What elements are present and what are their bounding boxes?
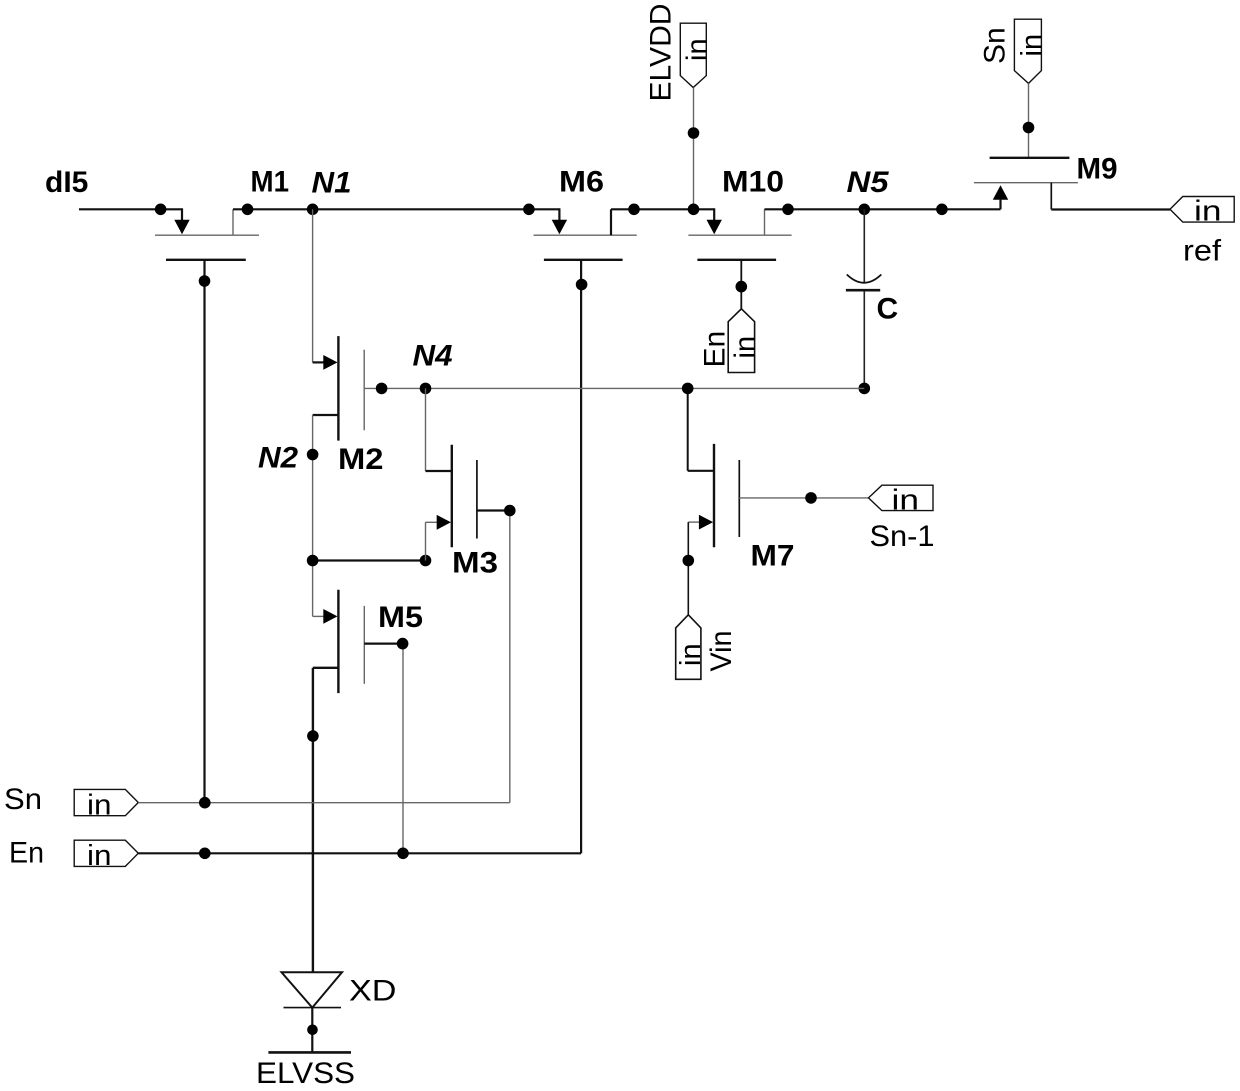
- svg-text:Vin: Vin: [705, 631, 738, 672]
- wire XD cathode to ELVSS: [311, 1008, 313, 1053]
- svg-text:En: En: [9, 837, 44, 870]
- wire dI5 input to M1 source: [79, 208, 182, 221]
- svg-text:M9: M9: [1077, 153, 1118, 186]
- svg-text:M3: M3: [452, 547, 498, 580]
- junction dot En at M5 gate: [397, 848, 409, 860]
- wire M2 drain down through N2: [312, 415, 314, 616]
- junction dot M5 gate lead: [397, 638, 409, 650]
- svg-text:ref: ref: [1183, 235, 1222, 268]
- svg-text:M10: M10: [722, 166, 784, 199]
- node ELVDD rail junction: [688, 204, 700, 216]
- svg-text:in: in: [892, 484, 920, 516]
- diode XD: [282, 972, 343, 1007]
- svg-text:N2: N2: [258, 442, 298, 475]
- junction dot M6 source: [523, 204, 535, 216]
- port Sn in (left): [74, 789, 138, 821]
- transistor M10: [688, 209, 791, 259]
- svg-text:in: in: [87, 840, 112, 872]
- junction dot Sn at M1 gate: [199, 797, 211, 809]
- port ELVDD in: [680, 23, 713, 87]
- junction dot M6 drain: [628, 204, 640, 216]
- junction dot M10 drain: [782, 204, 794, 216]
- svg-text:N5: N5: [847, 166, 890, 199]
- wire M7 drain to N4: [688, 388, 714, 470]
- svg-text:C: C: [877, 293, 899, 326]
- port Vin in (up): [675, 615, 707, 680]
- svg-text:in: in: [675, 643, 707, 666]
- junction dot link left: [307, 555, 319, 567]
- svg-text:Sn-1: Sn-1: [870, 520, 935, 553]
- wire M6 drain to ELVDD node and M10: [611, 208, 714, 221]
- transistor M7: [688, 444, 739, 547]
- junction dot M5 drain column: [307, 730, 319, 742]
- wire M7 gate to Sn-1 port: [739, 497, 868, 499]
- wire N1 to M2 source: [312, 209, 314, 362]
- svg-text:ELVSS: ELVSS: [256, 1057, 355, 1090]
- svg-text:dI5: dI5: [45, 166, 88, 199]
- wire M10 gate to En port: [740, 260, 742, 309]
- junction dot link right: [420, 555, 432, 567]
- junction dot ELVDD lead: [688, 127, 700, 139]
- wire M5 gate to En line: [364, 644, 403, 854]
- port ref in: [1170, 196, 1234, 228]
- svg-text:M1: M1: [251, 166, 290, 199]
- junction dot M10 gate lead: [736, 281, 748, 293]
- junction dot En line left: [199, 848, 211, 860]
- wire En line: [138, 852, 581, 854]
- junction dot N4 at M3 drain: [420, 383, 432, 395]
- port En in (up): [728, 309, 761, 373]
- junction dot dI5 wire: [155, 204, 167, 216]
- node N5: [859, 204, 871, 216]
- wire link N2 column to M3 source: [313, 559, 426, 561]
- node N1: [307, 204, 319, 216]
- junction dot before M9: [936, 204, 948, 216]
- wire ELVDD to top rail: [693, 88, 695, 210]
- wire M1 drain to N1 and M6: [233, 208, 559, 221]
- wire M3 drain to N4: [426, 388, 452, 471]
- svg-text:XD: XD: [349, 975, 397, 1008]
- transistor M9: [974, 158, 1078, 210]
- junction dot M1 drain: [242, 204, 254, 216]
- wire M3 gate to Sn line: [477, 511, 510, 803]
- junction dot M1 gate lead: [199, 275, 211, 287]
- wire M9 drain to ref port: [1051, 208, 1170, 210]
- junction dot M2 gate lead: [376, 383, 388, 395]
- wire M1 gate to Sn line: [203, 260, 205, 803]
- junction dot M7 gate lead: [805, 492, 817, 504]
- svg-text:M6: M6: [559, 165, 604, 198]
- junction dot XD cathode: [307, 1025, 318, 1036]
- svg-text:in: in: [1016, 34, 1048, 57]
- port Sn-1 in: [869, 484, 934, 516]
- transistor M1: [155, 209, 259, 259]
- svg-text:Sn: Sn: [979, 27, 1012, 64]
- svg-text:in: in: [87, 789, 112, 821]
- junction dot N4 at M7: [682, 383, 694, 395]
- svg-text:N1: N1: [312, 167, 352, 200]
- junction dot M3 gate lead: [504, 505, 516, 517]
- transistor M6: [534, 209, 637, 259]
- svg-text:ELVDD: ELVDD: [645, 4, 678, 102]
- svg-text:N4: N4: [413, 339, 453, 372]
- power ELVSS bar: [268, 1051, 351, 1054]
- wire M5 drain to XD: [312, 668, 314, 973]
- wire M10 drain to N5 and M9: [765, 208, 1001, 210]
- svg-text:in: in: [729, 336, 761, 359]
- wire Sn port to M9 gate: [1028, 83, 1030, 157]
- svg-text:Sn: Sn: [4, 783, 42, 816]
- junction dot M6 gate lead: [576, 279, 588, 291]
- node N2: [307, 449, 319, 461]
- junction dot C bottom on N4: [859, 383, 871, 395]
- svg-text:En: En: [699, 331, 732, 368]
- svg-text:M7: M7: [751, 540, 795, 573]
- junction dot M9 gate lead: [1023, 122, 1035, 134]
- wire N4 from M2 gate to capacitor: [364, 387, 864, 389]
- wire Sn line: [138, 802, 510, 804]
- port En in (left): [74, 840, 138, 872]
- junction dot M7 source: [683, 555, 695, 567]
- svg-text:M5: M5: [378, 601, 423, 634]
- wire M6 gate to En line: [580, 260, 582, 854]
- svg-text:M2: M2: [338, 443, 384, 476]
- transistor M5: [313, 590, 365, 693]
- svg-text:in: in: [1194, 196, 1222, 228]
- transistor M3: [426, 445, 477, 561]
- port Sn in (top right): [1014, 19, 1048, 83]
- capacitor C: [846, 209, 881, 388]
- svg-text:in: in: [681, 38, 713, 61]
- wire M7 source to Vin port: [687, 522, 689, 615]
- transistor M2: [313, 336, 365, 441]
